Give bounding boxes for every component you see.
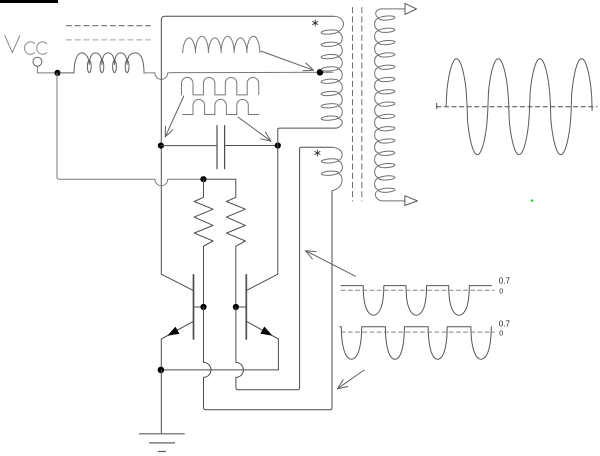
transformer feedback winding	[321, 147, 342, 191]
wire R1 bottom to Q1 base node	[203, 246, 205, 307]
annotation arrow to center tap	[261, 51, 314, 70]
svg-text:0.7: 0.7	[499, 320, 511, 329]
annotation arrow to node B	[165, 96, 184, 137]
transistor Q2 collector lead	[246, 146, 277, 291]
junction node F (Q2 base)	[233, 304, 239, 310]
annotation waveform: Q1 collector half-sines	[182, 77, 259, 95]
annotation waveform: Q2 collector half-sines	[193, 99, 248, 114]
junction node B (tank left)	[158, 143, 164, 149]
svg-text:0.7: 0.7	[499, 277, 511, 286]
resistor R1	[194, 179, 213, 246]
phase dot (asterisk) feedback winding	[315, 150, 320, 156]
secondary bottom lead arrowhead	[405, 196, 418, 206]
transformer primary winding (center-tapped)	[321, 16, 344, 128]
junction node D (R1 top)	[200, 176, 206, 182]
ground symbol	[140, 434, 185, 452]
stray green pixel	[531, 200, 533, 202]
wire resistor top rail	[200, 178, 235, 180]
transformer core (dashed)	[353, 8, 362, 202]
junction node C (tank right)	[275, 142, 281, 148]
annotation arrow to node C	[238, 117, 271, 141]
capacitor C1	[217, 126, 225, 169]
base waveform 1 (0.7V clamped)	[341, 286, 491, 316]
junction node E (Q1 base)	[200, 304, 206, 310]
wire node B to capacitor	[161, 145, 217, 147]
base waveform 1 zero line (dashed)	[341, 289, 494, 291]
net label Vcc	[5, 36, 47, 55]
output sine waveform baseline (dashed)	[437, 106, 597, 108]
base waveform 2 zero line (dashed)	[341, 331, 494, 333]
transistor Q2 base wire	[239, 306, 246, 308]
wire node C up to primary bottom lead	[278, 128, 336, 145]
transistor Q1 collector lead	[161, 274, 193, 290]
junction node G (emitter/ground)	[158, 367, 165, 374]
Vcc terminal circle	[33, 57, 42, 66]
wire L1 to center tap, hop under vertical trunk	[144, 72, 333, 79]
wire: vertical trunk (Q1 collector to tank top)	[161, 16, 165, 274]
annotation waveform: choke current scallops	[183, 36, 260, 52]
output sine waveform	[446, 59, 592, 155]
resistor R2	[226, 179, 245, 246]
annotation arrow to feedback-top wire	[306, 251, 356, 277]
transformer secondary winding	[375, 9, 405, 201]
dashed pair top-left (core continuation)	[66, 25, 150, 27]
transistor Q2 emitter with arrow	[246, 321, 278, 370]
wire to ground	[160, 370, 162, 434]
junction: transformer primary center tap	[317, 69, 324, 76]
wire Q2 base node down, hop over emitter rail, to feedback top	[236, 147, 332, 390]
annotation arrow to feedback-bottom wire	[338, 370, 365, 389]
transistor Q1 base bar	[193, 275, 195, 339]
secondary top lead arrowhead	[405, 3, 417, 14]
wire capacitor to node C	[225, 145, 278, 147]
transistor Q1 base wire	[194, 306, 201, 308]
transistor Q2 base bar	[245, 275, 247, 339]
wire: top rail from trunk to primary top	[165, 15, 333, 17]
svg-text:0: 0	[499, 331, 503, 338]
phase dot (asterisk) primary	[313, 20, 318, 26]
wire R2 bottom to Q2 base node	[235, 246, 237, 307]
wire emitter rail	[161, 369, 279, 371]
transistor Q1 emitter with arrow	[161, 321, 193, 370]
wire Q1 base node down, hop over emitter rail, to feedback return	[204, 191, 333, 410]
inductor L1 (RF choke)	[60, 53, 144, 73]
junction node A (Vcc rail)	[54, 70, 60, 76]
wire Vcc terminal to node A	[37, 66, 54, 73]
wire node A down to resistor rail, hop under trunk	[57, 73, 200, 186]
svg-text:0: 0	[499, 288, 503, 295]
base waveform 2 (0.7V clamped)	[340, 327, 492, 360]
